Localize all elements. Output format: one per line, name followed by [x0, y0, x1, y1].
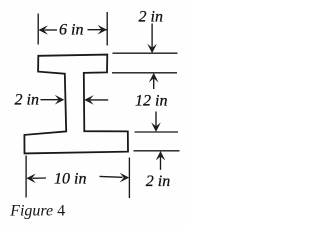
- svg-text:2 in: 2 in: [146, 173, 170, 190]
- svg-text:6 in: 6 in: [59, 21, 83, 38]
- svg-text:12 in: 12 in: [135, 93, 167, 110]
- svg-text:10 in: 10 in: [54, 171, 86, 188]
- svg-text:2 in: 2 in: [15, 92, 39, 109]
- svg-text:2 in: 2 in: [139, 9, 163, 26]
- svg-text:Figure 4: Figure 4: [9, 202, 65, 219]
